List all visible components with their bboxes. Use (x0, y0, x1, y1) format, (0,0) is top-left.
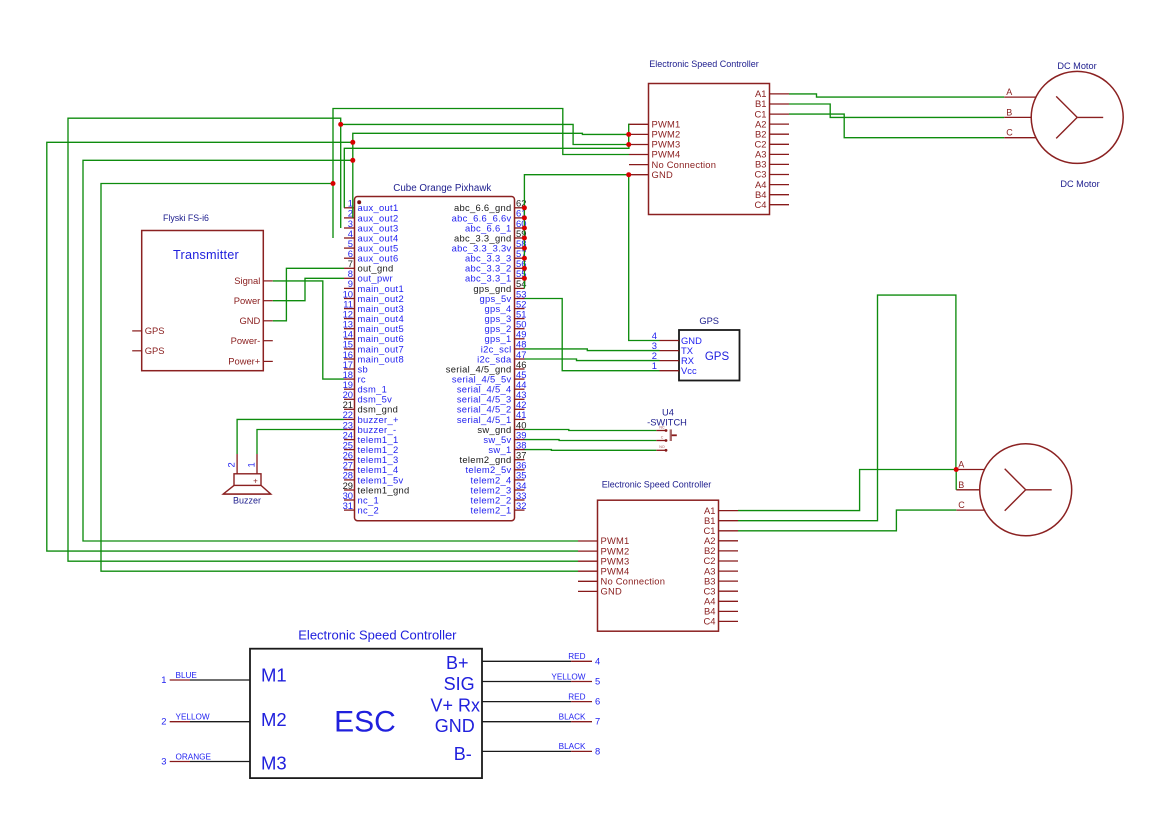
svg-text:A: A (1006, 87, 1012, 97)
svg-text:RED: RED (568, 692, 585, 701)
svg-text:YELLOW: YELLOW (551, 672, 585, 681)
svg-text:C: C (1006, 128, 1013, 138)
svg-text:C4: C4 (755, 199, 767, 210)
svg-text:B+: B+ (446, 653, 469, 673)
svg-text:Transmitter: Transmitter (173, 248, 239, 262)
svg-text:Power: Power (234, 295, 261, 306)
svg-text:1: 1 (652, 360, 657, 371)
svg-text:GND: GND (601, 586, 622, 597)
svg-text:YELLOW: YELLOW (176, 713, 210, 722)
svg-text:3: 3 (161, 756, 166, 767)
svg-text:telem2_1: telem2_1 (471, 505, 512, 516)
svg-text:1: 1 (246, 462, 257, 467)
svg-text:Power+: Power+ (228, 356, 261, 367)
svg-text:ESC: ESC (334, 706, 396, 739)
svg-text:8: 8 (595, 745, 600, 756)
svg-text:2: 2 (226, 462, 237, 467)
svg-text:C: C (661, 435, 664, 439)
svg-text:SIG: SIG (444, 674, 475, 694)
svg-text:32: 32 (516, 500, 526, 511)
svg-text:nc_2: nc_2 (358, 505, 380, 516)
svg-text:M3: M3 (261, 753, 287, 774)
svg-text:5: 5 (595, 676, 600, 687)
svg-text:B: B (958, 480, 964, 490)
svg-text:Electronic Speed Controller: Electronic Speed Controller (298, 628, 457, 643)
svg-text:31: 31 (343, 500, 353, 511)
svg-text:GPS: GPS (705, 351, 730, 363)
svg-text:V+ Rx: V+ Rx (430, 696, 480, 716)
svg-text:NO: NO (659, 445, 665, 449)
svg-text:C4: C4 (704, 616, 716, 627)
svg-text:B: B (1006, 107, 1012, 117)
svg-text:4: 4 (595, 655, 600, 666)
svg-text:+: + (253, 477, 258, 486)
svg-text:NC: NC (659, 425, 665, 429)
svg-text:M1: M1 (261, 665, 287, 686)
svg-text:-SWITCH: -SWITCH (647, 418, 687, 428)
svg-text:6: 6 (595, 696, 600, 707)
svg-text:U4: U4 (662, 408, 674, 418)
svg-text:GND: GND (652, 169, 673, 180)
svg-text:GPS: GPS (145, 325, 165, 336)
svg-text:C: C (958, 500, 965, 510)
svg-text:GPS: GPS (699, 316, 719, 326)
svg-text:GPS: GPS (145, 345, 165, 356)
svg-text:A: A (958, 460, 964, 470)
svg-text:Buzzer: Buzzer (233, 496, 261, 506)
svg-text:Signal: Signal (234, 275, 260, 286)
svg-text:ORANGE: ORANGE (176, 752, 212, 761)
svg-text:DC Motor: DC Motor (1057, 61, 1096, 71)
svg-text:Flyski FS-i6: Flyski FS-i6 (163, 213, 209, 223)
svg-text:Electronic Speed Controller: Electronic Speed Controller (602, 480, 712, 490)
svg-text:1: 1 (161, 674, 166, 685)
svg-text:BLUE: BLUE (176, 671, 198, 680)
svg-text:Electronic Speed Controller: Electronic Speed Controller (649, 59, 759, 69)
svg-text:BLACK: BLACK (559, 713, 586, 722)
svg-text:M2: M2 (261, 709, 287, 730)
svg-text:DC Motor: DC Motor (1060, 179, 1099, 189)
svg-text:Vcc: Vcc (681, 365, 697, 376)
svg-text:Cube Orange Pixhawk: Cube Orange Pixhawk (393, 183, 491, 194)
svg-text:BLACK: BLACK (559, 742, 586, 751)
svg-text:2: 2 (161, 716, 166, 727)
svg-text:GND: GND (239, 315, 260, 326)
svg-text:Power-: Power- (231, 335, 261, 346)
svg-text:GND: GND (435, 716, 475, 736)
svg-text:RED: RED (568, 652, 585, 661)
svg-text:B-: B- (454, 744, 472, 764)
svg-text:7: 7 (595, 716, 600, 727)
